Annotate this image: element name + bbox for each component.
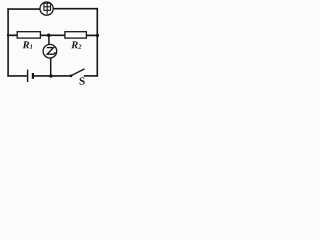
wire: right rail bbox=[96, 8, 98, 77]
node: left rail junction bbox=[7, 34, 10, 37]
battery cell bbox=[28, 70, 33, 82]
wire: top left segment bbox=[7, 8, 40, 10]
wire: middle branch right (R2 to rail) bbox=[86, 34, 98, 36]
resistor R2 bbox=[65, 32, 87, 38]
wire: junction down to meter 乙 bbox=[48, 35, 50, 44]
node: bottom rail junction bbox=[49, 74, 52, 77]
resistor R1 bbox=[17, 32, 40, 38]
voltmeter 乙 (middle meter) bbox=[43, 44, 57, 58]
ammeter 甲 (top meter) bbox=[40, 2, 53, 15]
wire: meter 乙 down to bottom rail bbox=[50, 58, 52, 76]
wire: bottom right segment (switch to corner) bbox=[84, 75, 98, 77]
background bbox=[0, 0, 113, 93]
switch S bbox=[70, 69, 85, 77]
label S bbox=[80, 77, 85, 84]
wire: middle branch (R1 to junction to R2) bbox=[40, 34, 65, 36]
node: right rail junction bbox=[96, 34, 99, 37]
wire: top right segment bbox=[53, 8, 98, 10]
label R1 bbox=[23, 41, 33, 48]
label R2 bbox=[71, 41, 81, 48]
wire: bottom left segment (corner to battery) bbox=[7, 75, 27, 77]
wire: left rail bbox=[7, 8, 9, 76]
node: meter tap junction bbox=[47, 34, 51, 38]
wire: bottom middle segment (battery to switch contact) bbox=[34, 75, 71, 77]
wire: middle branch left (rail to R1) bbox=[7, 34, 17, 36]
